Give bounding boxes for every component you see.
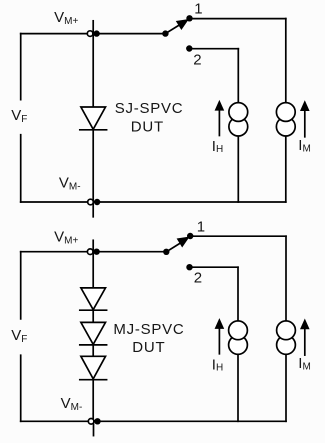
svg-text:2: 2 — [194, 270, 202, 287]
svg-text:VM-: VM- — [59, 175, 81, 193]
svg-text:SJ-SPVC: SJ-SPVC — [115, 100, 184, 117]
terminal VM- open circle (circuit 2) — [88, 419, 94, 425]
switch S2 blade with arrowhead — [166, 237, 188, 251]
svg-text:IM: IM — [298, 355, 311, 373]
switch S1 pivot dot — [162, 30, 168, 36]
svg-text:1: 1 — [197, 218, 205, 235]
svg-text:VM-: VM- — [61, 395, 83, 413]
wire anode branch (circuit 1) — [92, 34, 94, 107]
current source IM (circuit 2) — [277, 321, 296, 354]
diode D2 (MJ-SPVC DUT) — [80, 288, 107, 310]
svg-text:DUT: DUT — [131, 119, 164, 136]
junction dot VM+ (circuit 2) — [93, 249, 99, 255]
current source IH (circuit 1) — [229, 103, 248, 136]
wire contact1 to right rail (circuit 2) — [190, 235, 286, 237]
junction dot VM+ (circuit 1) — [93, 30, 99, 36]
svg-text:2: 2 — [193, 51, 201, 68]
wire between D2 and D3 — [92, 310, 94, 322]
wire right rail (circuit 1) — [285, 19, 287, 202]
wire stub below node VM- — [92, 202, 94, 217]
svg-text:1: 1 — [194, 1, 202, 18]
wire left lower segment (circuit 2) — [20, 355, 22, 421]
svg-text:IH: IH — [212, 138, 223, 155]
switch S1 contact 1 dot — [186, 15, 192, 21]
switch S2 pivot dot — [163, 249, 169, 255]
svg-text:IH: IH — [212, 356, 223, 373]
switch S1 blade with arrowhead — [165, 20, 187, 34]
arrow IH (circuit 1) — [215, 101, 223, 136]
svg-text:VF: VF — [11, 327, 27, 345]
svg-text:IM: IM — [298, 137, 311, 155]
wire contact2 to IH branch (circuit 2) — [190, 266, 239, 268]
terminal VM+ open circle (circuit 1) — [87, 31, 93, 37]
current source IH (circuit 2) — [229, 321, 248, 354]
diode D4 (MJ-SPVC DUT) — [80, 356, 107, 379]
diode D3 (MJ-SPVC DUT) — [80, 322, 107, 345]
svg-text:VF: VF — [11, 107, 27, 125]
switch S2 contact 1 dot — [187, 233, 193, 239]
wire cathode branch (circuit 1) — [92, 130, 94, 202]
terminal VM+ open circle (circuit 2) — [87, 249, 93, 255]
wire stub above node VM+ — [92, 21, 94, 34]
wire right rail (circuit 2) — [285, 236, 287, 421]
wire bottom rail (circuit 1) — [21, 201, 286, 203]
wire IH branch (circuit 1) — [237, 49, 239, 202]
wire anode branch (circuit 2) — [92, 252, 94, 288]
wire cathode branch (circuit 2) — [92, 380, 94, 422]
current source IM (circuit 1) — [276, 103, 295, 136]
wire contact2 to IH branch (circuit 1) — [189, 48, 238, 50]
wire left lower segment (circuit 1) — [20, 135, 22, 202]
wire left upper segment (circuit 1) — [20, 34, 22, 100]
wire between D3 and D4 — [92, 345, 94, 356]
arrow IM (circuit 2) — [301, 320, 309, 356]
svg-text:MJ-SPVC: MJ-SPVC — [113, 321, 184, 338]
wire stub above node VM+ (circuit 2) — [92, 240, 94, 251]
switch S1 contact 2 dot — [186, 45, 192, 51]
junction dot VM- (circuit 2) — [94, 418, 100, 424]
wire stub below node VM- (circuit 2) — [93, 421, 95, 435]
wire top rail (circuit 2) — [21, 251, 167, 253]
wire IH branch (circuit 2) — [237, 267, 239, 421]
junction dot VM- (circuit 1) — [94, 199, 100, 205]
arrow IM (circuit 1) — [301, 101, 309, 137]
terminal VM- open circle (circuit 1) — [88, 199, 94, 205]
svg-text:VM+: VM+ — [54, 9, 78, 27]
diode D1 SJ-SPVC DUT — [80, 107, 107, 130]
svg-text:VM+: VM+ — [54, 229, 78, 247]
switch S2 contact 2 dot — [186, 264, 192, 270]
svg-text:DUT: DUT — [132, 339, 165, 356]
wire top rail (circuit 1) — [21, 33, 166, 35]
wire contact1 to right rail (circuit 1) — [190, 18, 286, 20]
wire bottom rail (circuit 2) — [21, 420, 286, 422]
wire left upper segment (circuit 2) — [20, 252, 22, 319]
arrow IH (circuit 2) — [215, 319, 223, 354]
